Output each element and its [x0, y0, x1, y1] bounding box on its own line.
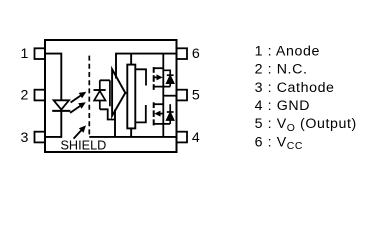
svg-text:2 : N.C.: 2 : N.C. [255, 62, 308, 78]
Vcc rail (pin 6) [115, 53, 176, 55]
wire pin 5 output [163, 95, 176, 97]
package outline [45, 40, 177, 152]
transistor Q1 body stub with arrow [154, 74, 163, 80]
transistor Q2 channel [153, 102, 155, 125]
shield dashed line [88, 56, 90, 137]
pin description list [255, 43, 357, 152]
svg-text:6 : VCC: 6 : VCC [255, 134, 303, 152]
svg-text:6: 6 [192, 46, 200, 62]
pin 6 [177, 48, 188, 59]
svg-text:4 : GND: 4 : GND [255, 98, 310, 114]
svg-text:5 : VO (Output): 5 : VO (Output) [255, 116, 357, 134]
wire driver bottom to GND rail [130, 128, 132, 137]
wire pin1 to LED anode [45, 54, 61, 101]
svg-text:1: 1 [21, 46, 29, 62]
GND rail (pin 4) [89, 136, 176, 138]
wire pin3 to LED cathode [45, 111, 61, 137]
op-amp A1 [112, 69, 125, 116]
wire PD top to amp input [100, 79, 110, 81]
pin 4 [177, 132, 188, 143]
wire Vcc rail to amp top [115, 54, 117, 79]
svg-text:5: 5 [192, 88, 200, 104]
svg-text:1 : Anode: 1 : Anode [255, 43, 320, 59]
transistor Q2 body stub with arrow [154, 111, 163, 117]
svg-text:3: 3 [21, 130, 29, 146]
transistor Q1 drain stub [154, 67, 164, 69]
transistor Q1 source stub [154, 86, 171, 88]
photodiode PD [94, 80, 106, 109]
svg-text:SHIELD: SHIELD [60, 138, 106, 152]
pin 5 [177, 90, 188, 101]
wire amp apex to driver [125, 92, 127, 94]
light arrow 1 [71, 92, 87, 103]
svg-text:4: 4 [192, 130, 200, 146]
light arrow 2 [70, 102, 86, 113]
transistor Q2 source stub [154, 123, 171, 125]
pin 2 [35, 90, 46, 101]
pin 1 [35, 48, 46, 59]
svg-text:3 : Cathode: 3 : Cathode [255, 80, 335, 96]
body diode D2 [163, 70, 173, 86]
amp input edge wire [109, 80, 111, 106]
wire PD bottom to ground jog [100, 109, 115, 119]
transistor Q2 gate wire [135, 105, 146, 122]
LED D1 [52, 100, 70, 111]
output column [162, 54, 164, 137]
driver block U1 [127, 65, 135, 129]
pin 3 [35, 132, 46, 143]
wire Vcc rail to driver top [130, 54, 132, 65]
svg-text:2: 2 [21, 88, 29, 104]
transistor Q2 drain stub [154, 103, 164, 105]
shield arrow [74, 125, 86, 138]
transistor Q1 channel [153, 67, 155, 90]
wire amp bottom to GND rail [114, 110, 116, 137]
body diode D3 [167, 104, 174, 124]
transistor Q1 gate wire [135, 69, 146, 85]
